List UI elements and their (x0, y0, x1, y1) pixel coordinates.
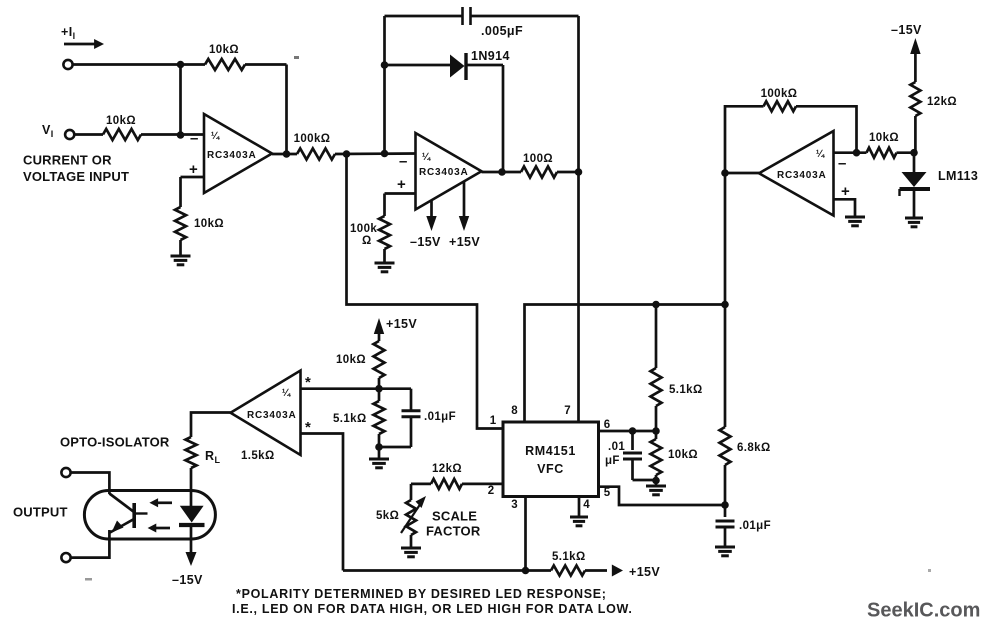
svg-text:5kΩ: 5kΩ (376, 510, 399, 522)
svg-text:+15V: +15V (629, 565, 660, 579)
svg-text:.005μF: .005μF (481, 24, 523, 38)
svg-text:12kΩ: 12kΩ (432, 463, 462, 475)
svg-text:RL: RL (205, 449, 220, 465)
svg-text:CURRENT OR: CURRENT OR (23, 153, 112, 168)
svg-text:10kΩ: 10kΩ (106, 115, 136, 127)
svg-text:SCALE: SCALE (432, 508, 477, 523)
svg-text:4: 4 (583, 499, 590, 511)
svg-text:100kΩ: 100kΩ (761, 88, 798, 100)
svg-text:100Ω: 100Ω (523, 153, 553, 165)
svg-text:+: + (397, 176, 406, 193)
svg-text:100k: 100k (350, 223, 377, 235)
svg-text:12kΩ: 12kΩ (927, 96, 957, 108)
svg-text:.01: .01 (608, 441, 625, 453)
svg-text:+: + (841, 183, 850, 200)
svg-text:FACTOR: FACTOR (426, 523, 481, 538)
svg-text:VI: VI (42, 123, 54, 139)
svg-text:*POLARITY DETERMINED BY DESIRE: *POLARITY DETERMINED BY DESIRED LED RESP… (236, 587, 607, 601)
svg-text:SeekIC.com: SeekIC.com (867, 600, 980, 622)
svg-text:OPTO-ISOLATOR: OPTO-ISOLATOR (60, 435, 170, 450)
svg-text:+15V: +15V (449, 235, 480, 249)
svg-text:100kΩ: 100kΩ (294, 133, 331, 145)
svg-text:+: + (189, 161, 198, 178)
svg-text:6: 6 (604, 419, 610, 431)
svg-text:5.1kΩ: 5.1kΩ (552, 551, 586, 563)
svg-text:–: – (399, 153, 407, 170)
svg-text:10kΩ: 10kΩ (668, 449, 698, 461)
svg-text:OUTPUT: OUTPUT (13, 505, 68, 520)
svg-text:10kΩ: 10kΩ (869, 132, 899, 144)
svg-text:.01μF: .01μF (424, 411, 456, 423)
svg-text:+Il: +Il (61, 25, 75, 41)
svg-text:6.8kΩ: 6.8kΩ (737, 442, 771, 454)
svg-text:1: 1 (490, 415, 497, 427)
svg-text:8: 8 (511, 405, 518, 417)
svg-text:10kΩ: 10kΩ (194, 218, 224, 230)
svg-text:–15V: –15V (172, 573, 203, 587)
svg-text:7: 7 (564, 405, 570, 417)
svg-text:2: 2 (488, 485, 494, 497)
svg-text:10kΩ: 10kΩ (209, 44, 239, 56)
svg-text:Ω: Ω (362, 235, 372, 247)
svg-text:5.1kΩ: 5.1kΩ (669, 384, 703, 396)
svg-text:RM4151: RM4151 (525, 444, 576, 458)
svg-text:RC3403A: RC3403A (419, 167, 469, 178)
svg-text:+15V: +15V (386, 317, 417, 331)
svg-text:¼: ¼ (816, 149, 825, 160)
svg-text:10kΩ: 10kΩ (336, 354, 366, 366)
svg-text:LM113: LM113 (938, 169, 978, 183)
svg-text:¼: ¼ (211, 131, 220, 142)
svg-text:5.1kΩ: 5.1kΩ (333, 413, 367, 425)
svg-text:¼: ¼ (282, 388, 291, 399)
svg-text:–: – (190, 130, 198, 147)
svg-text:–15V: –15V (410, 235, 441, 249)
svg-text:–: – (838, 155, 846, 172)
svg-text:RC3403A: RC3403A (207, 150, 257, 161)
svg-text:¼: ¼ (422, 152, 431, 163)
svg-text:–15V: –15V (891, 23, 922, 37)
svg-text:1N914: 1N914 (471, 49, 510, 63)
svg-text:3: 3 (511, 499, 517, 511)
svg-text:I.E., LED ON FOR DATA HIGH, OR: I.E., LED ON FOR DATA HIGH, OR LED HIGH … (232, 602, 633, 616)
svg-text:VFC: VFC (537, 462, 564, 476)
svg-text:5: 5 (604, 487, 611, 499)
svg-text:.01μF: .01μF (739, 520, 771, 532)
svg-text:μF: μF (605, 455, 620, 467)
svg-text:VOLTAGE INPUT: VOLTAGE INPUT (23, 169, 129, 184)
svg-text:RC3403A: RC3403A (247, 410, 297, 421)
svg-text:1.5kΩ: 1.5kΩ (241, 450, 275, 462)
svg-text:RC3403A: RC3403A (777, 170, 827, 181)
